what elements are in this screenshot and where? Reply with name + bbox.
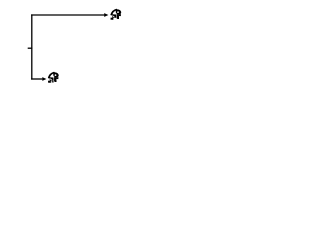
top node symbol <box>111 9 122 20</box>
bottom branch wire <box>31 78 42 80</box>
top arrowhead <box>104 13 108 17</box>
input stub wire <box>28 47 33 49</box>
bottom node symbol <box>48 72 59 83</box>
background <box>0 0 150 95</box>
vertical bus wire <box>31 14 33 79</box>
top branch wire <box>31 14 104 16</box>
bottom arrowhead <box>42 77 46 81</box>
